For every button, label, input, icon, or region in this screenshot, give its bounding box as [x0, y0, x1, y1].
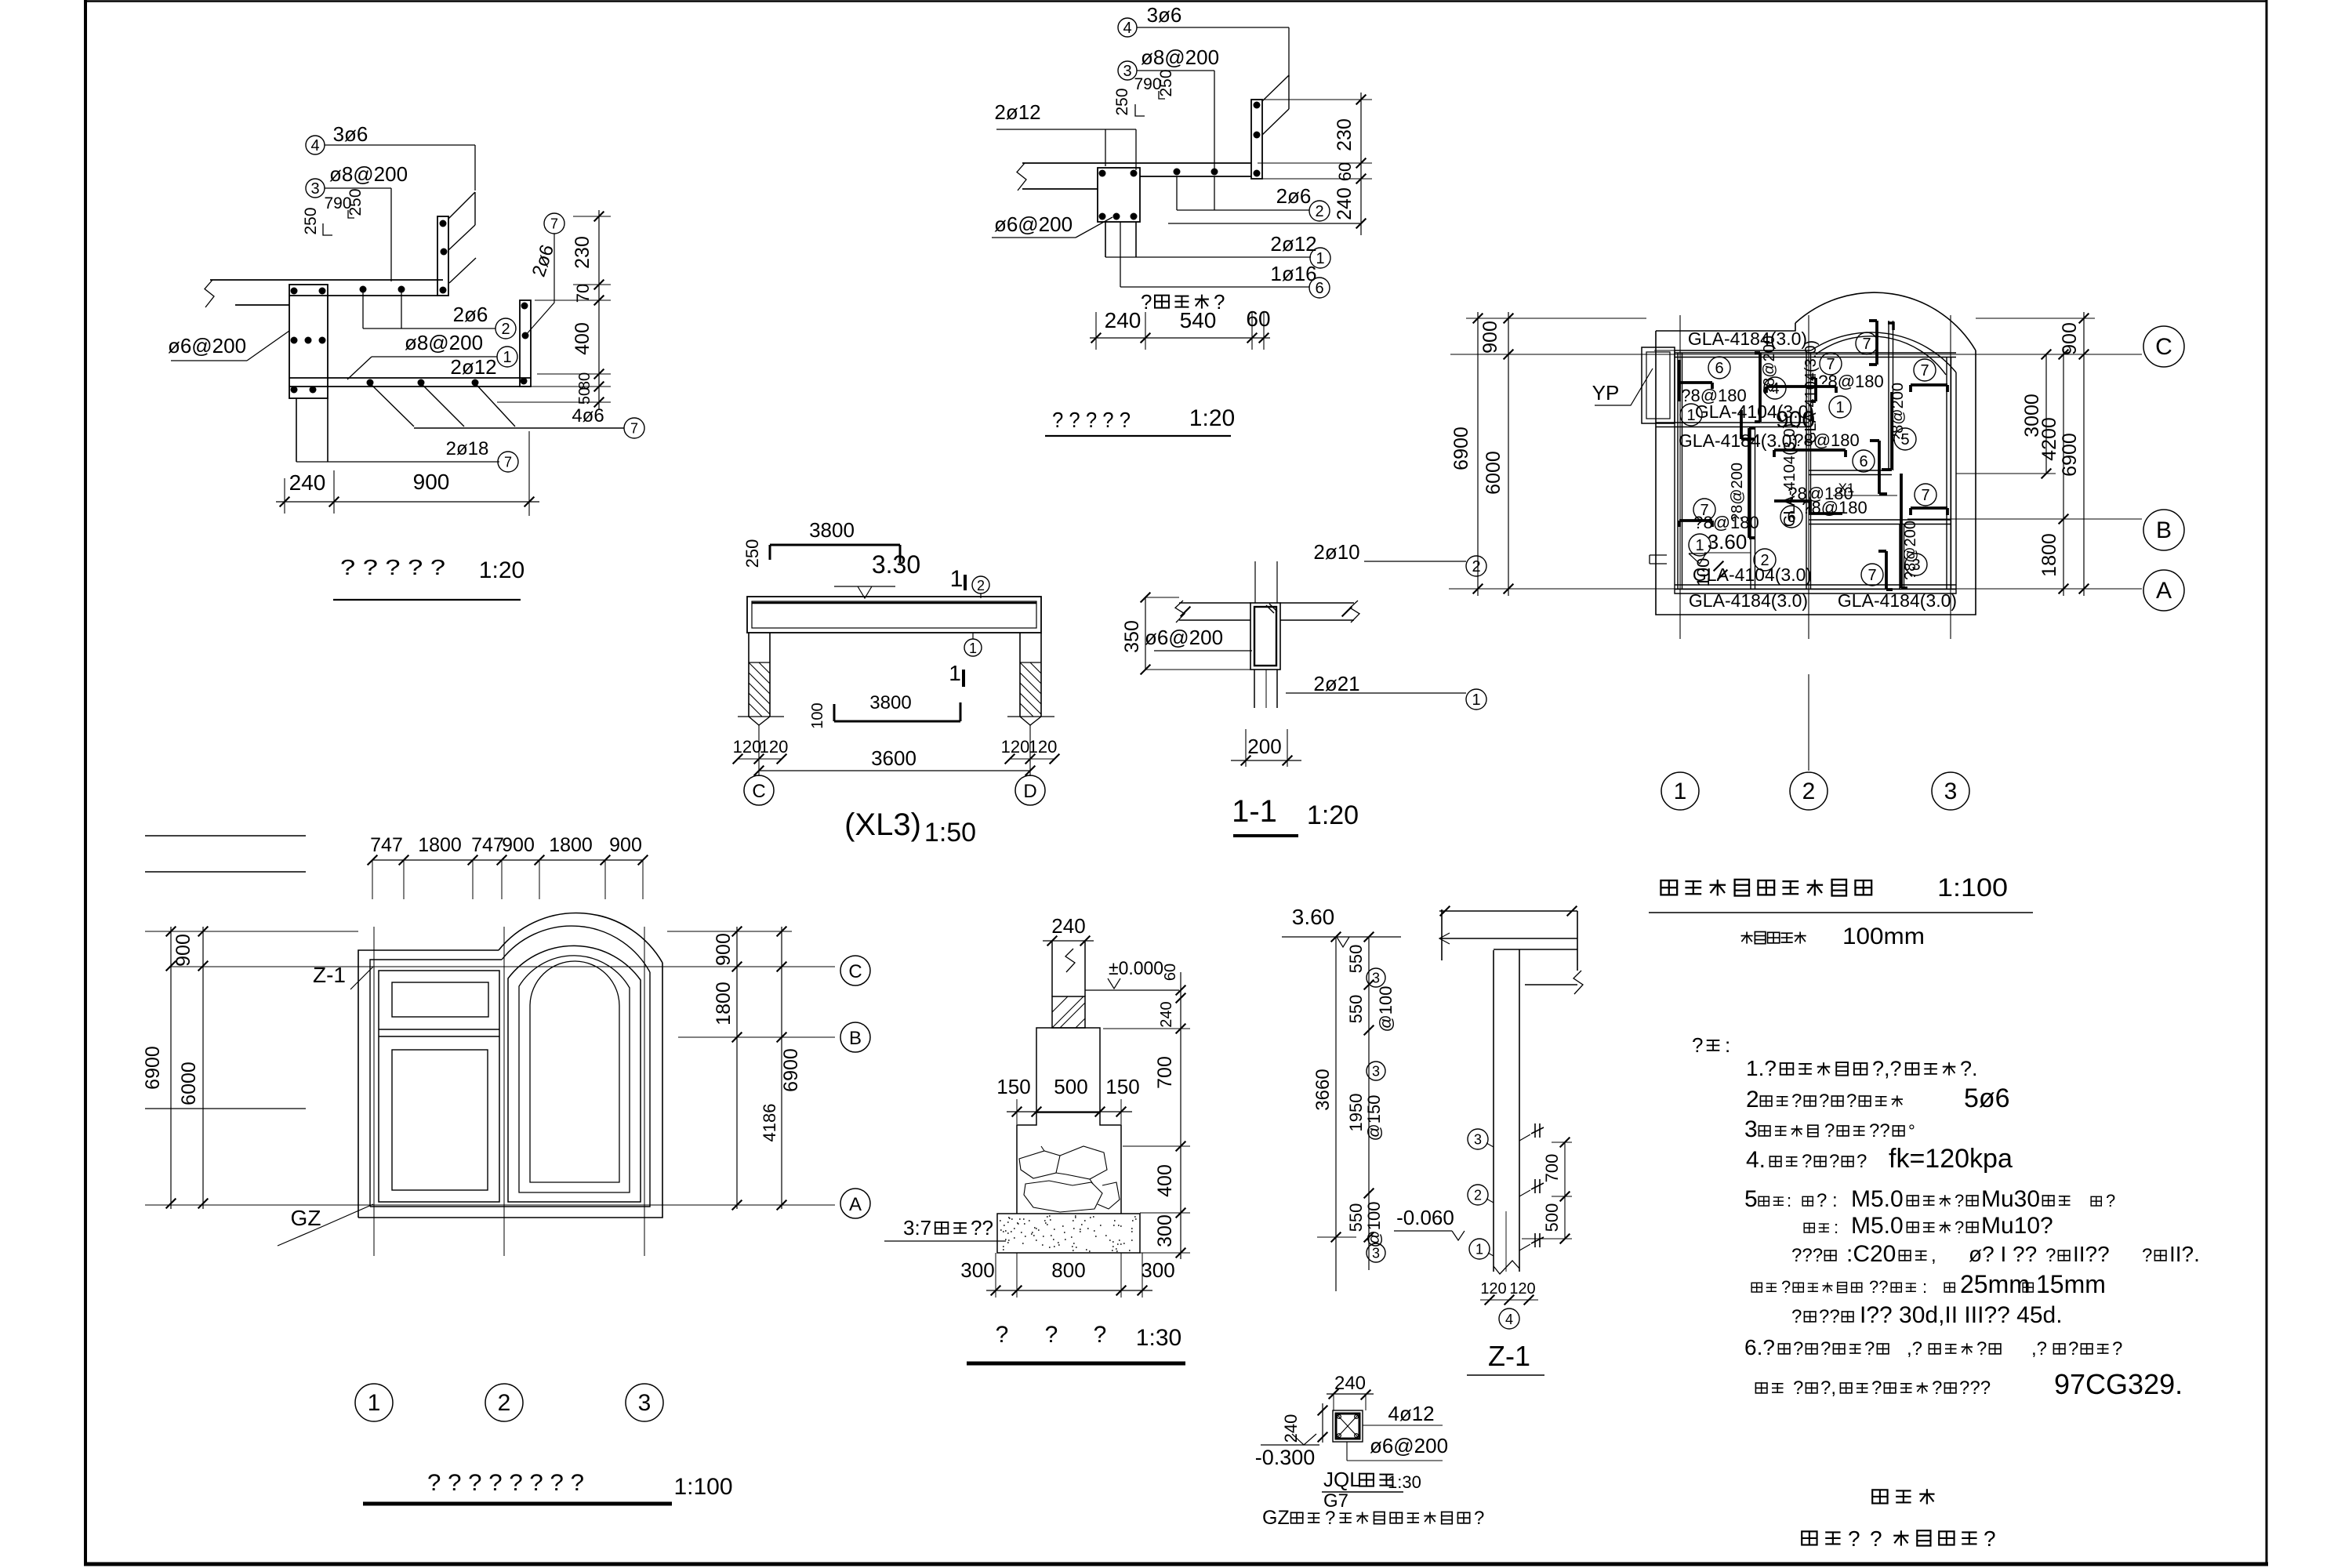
svg-text:240: 240 [289, 470, 326, 495]
svg-text:?: ? [1870, 1526, 1882, 1551]
svg-text:?: ? [1474, 1508, 1484, 1529]
svg-text:?: ? [1791, 1306, 1802, 1327]
svg-text:550: 550 [1346, 1203, 1366, 1232]
svg-text:1800: 1800 [418, 834, 462, 856]
svg-text:?,?: ?,? [1872, 1057, 1902, 1080]
svg-text:?: ? [2112, 1338, 2122, 1359]
svg-text:4200: 4200 [2038, 417, 2060, 461]
svg-text:6.?: 6.? [1744, 1335, 1775, 1359]
svg-text:400: 400 [1154, 1164, 1176, 1197]
svg-text:500: 500 [1054, 1075, 1087, 1098]
svg-text:?: ? [1793, 1338, 1803, 1359]
svg-text:ø8@200: ø8@200 [1141, 45, 1219, 69]
svg-text:120: 120 [760, 737, 789, 757]
svg-text:300: 300 [1141, 1258, 1174, 1282]
svg-text:GLA-4184(3.0): GLA-4184(3.0) [1679, 430, 1798, 451]
svg-text:400: 400 [572, 322, 593, 355]
svg-text:ø8@200: ø8@200 [329, 162, 408, 186]
svg-text:550: 550 [1346, 945, 1366, 974]
svg-text:??: ?? [971, 1216, 993, 1240]
svg-text:YP: YP [1592, 381, 1620, 405]
svg-text:2: 2 [977, 578, 985, 593]
svg-text:120: 120 [733, 737, 762, 757]
svg-text:1: 1 [1835, 399, 1844, 416]
svg-text:7: 7 [550, 216, 558, 231]
svg-text:3: 3 [1474, 1131, 1482, 1147]
svg-text:1:100: 1:100 [1937, 873, 2008, 902]
svg-text:4.: 4. [1746, 1147, 1766, 1173]
svg-text:X1: X1 [1838, 481, 1855, 495]
svg-text:200: 200 [1247, 735, 1281, 758]
svg-text:?: ? [2068, 1338, 2078, 1359]
svg-text:???: ??? [1959, 1377, 1991, 1399]
svg-text:2ø6: 2ø6 [453, 303, 488, 326]
svg-text:2: 2 [1472, 558, 1480, 575]
svg-text::C20: :C20 [1846, 1241, 1896, 1267]
svg-text:?,: ?, [1820, 1377, 1836, 1399]
svg-text:C: C [848, 961, 862, 982]
svg-text:3: 3 [310, 180, 319, 198]
svg-text:? ? ? ? ?: ? ? ? ? ? [1052, 408, 1131, 432]
svg-text:2ø10: 2ø10 [1313, 540, 1359, 564]
svg-text:3.30: 3.30 [872, 550, 920, 579]
svg-text:??: ?? [1869, 1277, 1888, 1297]
svg-text:?: ? [1824, 1120, 1835, 1142]
svg-text:GZ: GZ [1262, 1507, 1290, 1529]
svg-text:80: 80 [576, 372, 593, 390]
svg-text:? ? ? ? ?: ? ? ? ? ? [340, 555, 445, 579]
svg-text:900: 900 [609, 834, 642, 856]
svg-text:II?.: II?. [2169, 1242, 2200, 1266]
svg-text:GLA-4184(3.0): GLA-4184(3.0) [1689, 590, 1808, 611]
svg-text:6900: 6900 [2059, 433, 2081, 477]
svg-text:6: 6 [1715, 360, 1723, 377]
svg-text:GLA-4184(3.0): GLA-4184(3.0) [1838, 590, 1957, 611]
svg-text:ø8@200: ø8@200 [405, 331, 483, 354]
svg-text:?: ? [1791, 1091, 1802, 1112]
svg-text:5ø6: 5ø6 [1964, 1083, 2010, 1113]
svg-text:?: ? [1094, 1322, 1107, 1348]
svg-text:4: 4 [1505, 1312, 1513, 1327]
svg-text:1-1: 1-1 [1232, 794, 1277, 829]
svg-text:100mm: 100mm [1842, 924, 1925, 949]
svg-text:15mm: 15mm [2036, 1270, 2106, 1298]
svg-text:230: 230 [572, 236, 593, 269]
svg-text:1:20: 1:20 [1307, 800, 1359, 830]
svg-text:1: 1 [950, 566, 964, 592]
svg-text::: : [1725, 1033, 1730, 1057]
svg-text:-0.060: -0.060 [1396, 1206, 1454, 1229]
svg-text:3: 3 [1372, 1245, 1380, 1261]
svg-text:7: 7 [630, 420, 638, 436]
svg-text:fk=120kpa: fk=120kpa [1889, 1144, 2013, 1174]
svg-text:50: 50 [576, 387, 593, 405]
svg-text:120: 120 [1001, 737, 1030, 757]
svg-text:240: 240 [1105, 308, 1142, 332]
svg-text:7: 7 [1867, 567, 1876, 584]
svg-text:240: 240 [1334, 187, 1356, 220]
svg-text:Z-1: Z-1 [313, 963, 346, 987]
svg-text:2: 2 [1760, 552, 1769, 569]
svg-text:GLA-4184(3.0): GLA-4184(3.0) [1688, 328, 1807, 349]
svg-text:?: ? [1819, 1091, 1829, 1112]
svg-text::: : [1787, 1191, 1791, 1210]
svg-text:5: 5 [1744, 1186, 1758, 1212]
svg-text:?8@180: ?8@180 [1794, 430, 1860, 450]
svg-text:ø6@200: ø6@200 [168, 334, 246, 358]
svg-text:7: 7 [1826, 356, 1835, 373]
svg-text:1: 1 [368, 1390, 381, 1416]
svg-text:A: A [849, 1194, 862, 1215]
svg-text:3600: 3600 [871, 746, 916, 770]
svg-text:,?: ,? [2031, 1338, 2047, 1359]
svg-text:240: 240 [1158, 1001, 1175, 1027]
svg-text:150: 150 [996, 1075, 1030, 1098]
svg-text:1:30: 1:30 [1136, 1325, 1181, 1351]
svg-text:,?: ,? [1907, 1338, 1922, 1359]
svg-text:°: ° [1908, 1121, 1915, 1141]
svg-text:ø6@200: ø6@200 [1145, 626, 1223, 649]
svg-text:1: 1 [949, 661, 961, 685]
svg-text:97CG329.: 97CG329. [2054, 1368, 2183, 1400]
svg-text:540: 540 [1180, 308, 1217, 332]
svg-text:,: , [1931, 1245, 1936, 1266]
svg-text:7: 7 [504, 454, 512, 470]
svg-text:3: 3 [1372, 1063, 1380, 1079]
svg-text:1: 1 [1475, 1241, 1483, 1257]
svg-text:1: 1 [1674, 779, 1687, 804]
svg-text:3660: 3660 [1312, 1069, 1334, 1110]
svg-text:1: 1 [1695, 537, 1704, 554]
svg-text:1950: 1950 [1346, 1094, 1366, 1132]
svg-text:?: ? [1955, 1218, 1964, 1237]
svg-text:1: 1 [503, 349, 511, 366]
svg-text:3: 3 [1123, 63, 1131, 80]
svg-text:2ø6: 2ø6 [1276, 184, 1312, 208]
svg-text:JQL: JQL [1323, 1468, 1361, 1491]
svg-text:2ø12: 2ø12 [994, 100, 1040, 124]
svg-text:-0.300: -0.300 [1255, 1446, 1316, 1469]
svg-text:?: ? [1932, 1377, 1942, 1399]
svg-text:?: ? [1846, 1091, 1857, 1112]
svg-text:3: 3 [1372, 970, 1380, 985]
svg-text:Mu30: Mu30 [1981, 1186, 2040, 1212]
svg-text:1ø16: 1ø16 [1270, 262, 1316, 285]
svg-text:2: 2 [1315, 203, 1323, 220]
svg-text:7: 7 [1921, 487, 1929, 504]
svg-text:?: ? [1325, 1508, 1335, 1529]
svg-text:250: 250 [742, 539, 762, 568]
svg-text:300: 300 [1154, 1214, 1176, 1247]
svg-text:? ? ? ? ? ? ? ?: ? ? ? ? ? ? ? ? [427, 1470, 584, 1496]
svg-text:6: 6 [1787, 509, 1795, 526]
svg-text:1800: 1800 [2038, 533, 2060, 577]
svg-text:?: ? [1871, 1377, 1882, 1399]
svg-text:?: ? [1857, 1151, 1867, 1172]
svg-text:700: 700 [1154, 1056, 1176, 1089]
svg-text:25mm: 25mm [1960, 1270, 2030, 1298]
svg-text:4186: 4186 [760, 1104, 779, 1142]
svg-text:7: 7 [1700, 502, 1708, 519]
svg-text:3:7: 3:7 [903, 1216, 931, 1240]
svg-text:60: 60 [1246, 307, 1270, 331]
svg-text:2: 2 [501, 321, 510, 338]
svg-text:II??: II?? [2073, 1242, 2110, 1266]
svg-text:1:50: 1:50 [924, 818, 976, 848]
svg-text:?: ? [1955, 1191, 1964, 1210]
svg-text:@150: @150 [1364, 1094, 1384, 1141]
svg-text:C: C [2155, 334, 2172, 360]
svg-text:???: ??? [1791, 1245, 1823, 1266]
svg-text:6900: 6900 [1450, 426, 1472, 470]
svg-text:3.60: 3.60 [1292, 905, 1335, 929]
svg-text:3ø6: 3ø6 [1147, 3, 1182, 27]
svg-text:1.?: 1.? [1746, 1056, 1777, 1080]
svg-text:900: 900 [172, 934, 194, 967]
svg-text:250: 250 [302, 207, 320, 234]
svg-text:1:100: 1:100 [673, 1474, 732, 1500]
svg-text:2ø18: 2ø18 [446, 438, 489, 459]
svg-text:M5.0: M5.0 [1851, 1213, 1904, 1239]
svg-text:300: 300 [960, 1258, 994, 1282]
svg-text:60: 60 [1335, 162, 1355, 181]
svg-text:Z-1: Z-1 [1488, 1340, 1530, 1372]
svg-text:2: 2 [1802, 779, 1816, 804]
svg-text:GZ: GZ [291, 1206, 321, 1230]
svg-text:A: A [2156, 578, 2172, 604]
svg-text:B: B [849, 1028, 862, 1049]
svg-text:(XL3): (XL3) [844, 808, 921, 842]
svg-text:?: ? [2142, 1245, 2152, 1266]
svg-text:GLA-4104(3.0): GLA-4104(3.0) [1802, 340, 1820, 444]
svg-text:?: ? [2106, 1191, 2115, 1210]
svg-text:Mu10?: Mu10? [1981, 1213, 2053, 1239]
svg-text:ø6@200: ø6@200 [1370, 1434, 1448, 1457]
svg-text:1:30: 1:30 [1388, 1472, 1421, 1492]
svg-text:250: 250 [1157, 69, 1175, 96]
svg-text:2: 2 [1746, 1087, 1759, 1112]
svg-text:?: ? [2045, 1245, 2056, 1266]
svg-text:4: 4 [310, 137, 319, 154]
svg-text:M5.0: M5.0 [1851, 1186, 1904, 1212]
svg-text:1: 1 [1316, 250, 1324, 267]
svg-text:150: 150 [1105, 1075, 1139, 1098]
svg-text:4ø12: 4ø12 [1388, 1402, 1434, 1425]
svg-text:?: ? [996, 1322, 1009, 1348]
svg-text:550: 550 [1346, 995, 1366, 1024]
svg-text:?: ? [1864, 1338, 1875, 1359]
svg-text:800: 800 [1051, 1258, 1085, 1282]
svg-text:350: 350 [1121, 620, 1143, 653]
svg-text:@100: @100 [1364, 1201, 1384, 1247]
svg-text:?: ? [1781, 1277, 1791, 1297]
svg-text:6900: 6900 [142, 1046, 164, 1090]
svg-text:1:20: 1:20 [479, 557, 524, 583]
svg-text:900: 900 [413, 470, 450, 494]
svg-text:6000: 6000 [1483, 451, 1504, 495]
svg-text:60: 60 [1162, 964, 1179, 981]
svg-text:1800: 1800 [549, 834, 593, 856]
svg-text:3: 3 [1944, 779, 1958, 804]
svg-text:?: ? [1802, 1151, 1812, 1172]
svg-text:6900: 6900 [780, 1048, 802, 1092]
svg-text:2ø12: 2ø12 [1270, 232, 1316, 256]
svg-text:?: ? [1045, 1322, 1058, 1348]
svg-text:6000: 6000 [178, 1062, 200, 1105]
svg-text:1: 1 [1686, 407, 1695, 424]
svg-text:1800: 1800 [713, 982, 735, 1025]
svg-text:747: 747 [471, 834, 504, 856]
svg-text:±0.000: ±0.000 [1109, 958, 1163, 979]
svg-text:3: 3 [1744, 1116, 1758, 1142]
svg-text:900: 900 [1479, 321, 1501, 354]
svg-text:6: 6 [1315, 280, 1323, 297]
svg-text:3: 3 [638, 1390, 652, 1416]
svg-text:ø6@200: ø6@200 [994, 212, 1073, 236]
svg-text:??: ?? [1869, 1120, 1890, 1142]
svg-text:GLA-4104(3.0): GLA-4104(3.0) [1693, 564, 1812, 585]
svg-text:?8@180: ?8@180 [1802, 498, 1867, 517]
svg-text:3800: 3800 [869, 692, 911, 713]
svg-text:?: ? [1848, 1526, 1860, 1551]
svg-text:5: 5 [1900, 431, 1909, 448]
svg-text:7: 7 [1920, 362, 1929, 379]
svg-text:900: 900 [713, 933, 735, 966]
svg-text:4: 4 [1770, 380, 1779, 397]
svg-text:?: ? [1976, 1338, 1987, 1359]
svg-text:2: 2 [498, 1390, 511, 1416]
svg-text:70: 70 [573, 284, 593, 303]
svg-text:@100: @100 [1376, 985, 1396, 1032]
svg-text:250: 250 [1113, 88, 1131, 115]
svg-text:1:20: 1:20 [1189, 405, 1235, 431]
svg-text:?: ? [1793, 1377, 1803, 1399]
svg-text:240: 240 [1281, 1414, 1301, 1443]
svg-text:900: 900 [502, 834, 535, 856]
svg-text:500: 500 [1542, 1203, 1562, 1232]
svg-text:250: 250 [347, 188, 365, 216]
svg-text:?: ? [1984, 1526, 1996, 1551]
svg-text:1: 1 [1472, 691, 1480, 709]
svg-text:900: 900 [2059, 322, 2081, 355]
svg-text:?: ? [1141, 290, 1152, 314]
svg-text:120: 120 [1029, 737, 1058, 757]
svg-text:240: 240 [1334, 1373, 1366, 1394]
svg-text:?: ? [1820, 1338, 1831, 1359]
svg-text:4: 4 [1123, 20, 1131, 37]
svg-text:3: 3 [1911, 557, 1920, 574]
svg-text:2: 2 [1474, 1187, 1482, 1203]
svg-text:100: 100 [809, 702, 826, 728]
svg-text:?: ? [1692, 1033, 1703, 1057]
svg-text:3.60: 3.60 [1708, 530, 1748, 554]
svg-text:747: 747 [370, 834, 403, 856]
svg-text:C: C [752, 781, 765, 802]
svg-text:ø? I ??: ø? I ?? [1969, 1242, 2037, 1266]
svg-text:6: 6 [1859, 453, 1867, 470]
svg-text:? :: ? : [1817, 1190, 1838, 1211]
svg-text:2ø21: 2ø21 [1313, 672, 1359, 695]
svg-text:?: ? [1829, 1151, 1839, 1172]
svg-text::: : [1834, 1218, 1838, 1237]
svg-text:B: B [2156, 517, 2172, 543]
svg-text:??: ?? [1819, 1306, 1840, 1327]
svg-text:D: D [1023, 781, 1036, 802]
svg-text:1: 1 [969, 641, 977, 656]
svg-text::: : [1922, 1277, 1927, 1297]
svg-text:3ø6: 3ø6 [333, 122, 368, 146]
svg-text:230: 230 [1334, 118, 1356, 151]
svg-text:700: 700 [1542, 1154, 1562, 1183]
svg-text:?.: ?. [1960, 1057, 1978, 1080]
svg-text:2ø12: 2ø12 [450, 355, 496, 379]
svg-text:I?? 30d,II III?? 45d.: I?? 30d,II III?? 45d. [1860, 1302, 2063, 1328]
svg-text:240: 240 [1051, 914, 1085, 938]
svg-text:3800: 3800 [809, 518, 855, 542]
svg-text:7: 7 [1862, 336, 1871, 353]
